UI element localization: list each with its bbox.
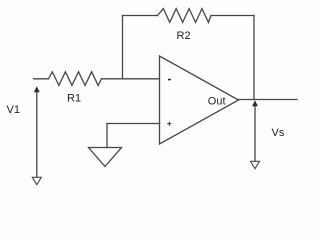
- svg-text:Out: Out: [208, 96, 226, 108]
- wire ground to non-inverting input: [107, 123, 160, 125]
- svg-text:R1: R1: [67, 93, 81, 105]
- wire feedback right vertical: [253, 16, 255, 100]
- wire R1 to inverting input: [102, 78, 160, 80]
- source arrow V1 line: [36, 91, 38, 177]
- V1 arrow head top filled: [34, 86, 40, 92]
- wire feedback top right: [211, 15, 254, 17]
- Vs arrow head bottom open: [251, 161, 260, 168]
- op-amp minus sign: [168, 79, 171, 81]
- Vs arrow head top filled: [252, 100, 258, 106]
- resistor R1: [49, 72, 102, 86]
- wire feedback left vertical: [122, 16, 124, 79]
- svg-text:R2: R2: [177, 30, 191, 42]
- wire output: [239, 99, 298, 101]
- wire feedback top left: [123, 15, 158, 17]
- op-amp U1 triangle: [160, 56, 239, 144]
- op-amp plus sign: [167, 122, 171, 126]
- wire input left segment: [34, 78, 49, 80]
- wire ground vertical: [106, 124, 108, 148]
- resistor R2: [158, 9, 212, 23]
- probe arrow Vs line: [254, 105, 256, 161]
- svg-text:V1: V1: [7, 104, 20, 116]
- V1 arrow head bottom open: [32, 177, 41, 184]
- svg-text:Vs: Vs: [272, 127, 285, 139]
- ground symbol: [89, 148, 122, 167]
